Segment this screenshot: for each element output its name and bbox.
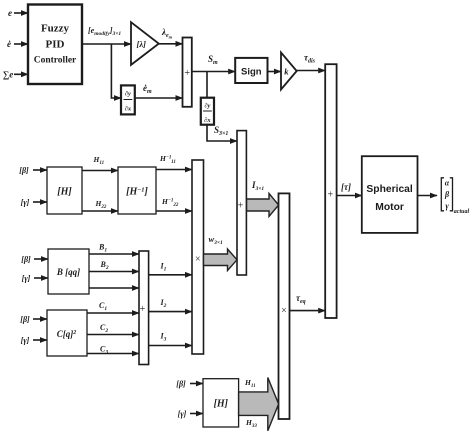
svg-text:Sm: Sm <box>208 54 218 66</box>
svg-text:∑e: ∑e <box>3 70 13 80</box>
svg-text:+: + <box>140 304 146 315</box>
svg-text:C1: C1 <box>99 301 107 312</box>
svg-text:ėm: ėm <box>143 83 152 95</box>
svg-text:C2: C2 <box>100 323 108 334</box>
svg-text:[emodify]3×1: [emodify]3×1 <box>88 26 121 37</box>
svg-text:∂y: ∂y <box>204 103 210 110</box>
svg-text:[β]: [β] <box>19 166 29 175</box>
svg-text:w3×1: w3×1 <box>209 234 224 246</box>
svg-text:I1: I1 <box>160 262 167 273</box>
svg-text:τeq: τeq <box>296 293 306 305</box>
svg-text:+: + <box>184 68 190 79</box>
svg-text:α: α <box>445 179 450 188</box>
svg-text:[β]: [β] <box>176 380 186 389</box>
svg-text:k: k <box>284 67 289 77</box>
svg-text:∂y: ∂y <box>125 91 131 98</box>
svg-text:∂x: ∂x <box>125 106 132 113</box>
svg-text:[H]: [H] <box>214 399 229 410</box>
svg-text:e: e <box>8 8 12 18</box>
svg-text:[γ]: [γ] <box>21 336 30 345</box>
svg-text:λem: λem <box>161 27 173 40</box>
svg-text:H11: H11 <box>93 155 105 166</box>
svg-text:Controller: Controller <box>34 56 77 66</box>
svg-text:H−122: H−122 <box>161 197 179 208</box>
svg-text:+: + <box>327 190 333 201</box>
svg-text:PID: PID <box>46 39 65 51</box>
svg-text:B2: B2 <box>100 260 109 271</box>
svg-text:[γ]: [γ] <box>22 274 31 283</box>
svg-text:[β]: [β] <box>21 255 31 264</box>
svg-text:ė: ė <box>7 39 11 49</box>
svg-text:[H]: [H] <box>57 187 72 198</box>
svg-text:H22: H22 <box>95 199 107 210</box>
svg-text:I3×1: I3×1 <box>251 180 264 192</box>
svg-text:[β]: [β] <box>20 315 30 324</box>
svg-text:+: + <box>238 201 244 212</box>
svg-text:Motor: Motor <box>375 202 404 213</box>
svg-text:×: × <box>281 306 287 317</box>
svg-text:τdis: τdis <box>304 53 316 65</box>
svg-text:actual: actual <box>454 209 470 215</box>
svg-text:Sign: Sign <box>241 67 262 78</box>
svg-text:B1: B1 <box>98 243 107 254</box>
svg-text:[γ]: [γ] <box>21 198 30 207</box>
svg-text:∂x: ∂x <box>204 117 211 124</box>
svg-text:H−111: H−111 <box>159 154 176 165</box>
svg-text:[λ]: [λ] <box>137 39 147 49</box>
svg-text:H33: H33 <box>245 418 257 429</box>
svg-text:Fuzzy: Fuzzy <box>41 23 70 35</box>
svg-text:B [qq]: B [qq] <box>56 267 80 277</box>
svg-text:I3: I3 <box>160 332 167 343</box>
svg-text:[τ]: [τ] <box>341 182 351 192</box>
svg-text:[γ]: [γ] <box>178 410 187 419</box>
svg-text:β: β <box>444 190 450 199</box>
svg-text:Spherical: Spherical <box>366 184 412 195</box>
svg-text:×: × <box>195 254 201 265</box>
svg-text:H11: H11 <box>244 378 256 389</box>
svg-text:S3×1: S3×1 <box>214 125 228 137</box>
svg-text:γ: γ <box>445 202 449 211</box>
svg-text:I2: I2 <box>160 298 167 309</box>
